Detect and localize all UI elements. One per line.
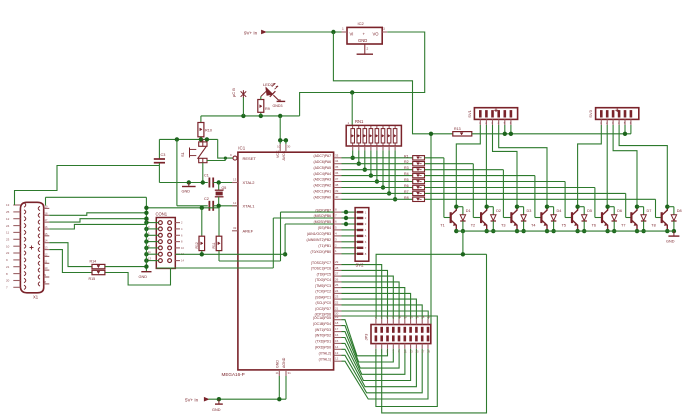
svg-text:14: 14: [335, 345, 339, 349]
svg-text:C2: C2: [204, 197, 209, 201]
svg-text:(SS)PB4: (SS)PB4: [318, 226, 331, 230]
svg-text:1: 1: [342, 27, 344, 31]
svg-text:R8: R8: [404, 196, 409, 200]
svg-text:R1: R1: [404, 154, 409, 158]
svg-text:GND: GND: [358, 38, 367, 43]
svg-text:D6: D6: [617, 209, 622, 213]
svg-text:RN1: RN1: [355, 119, 364, 124]
svg-text:(AIN1/OC0)PB3: (AIN1/OC0)PB3: [307, 232, 331, 236]
svg-text:T8: T8: [651, 224, 655, 228]
svg-text:25: 25: [335, 283, 339, 287]
svg-text:(INT1)PD3: (INT1)PD3: [315, 328, 331, 332]
svg-text:18: 18: [421, 315, 425, 319]
svg-text:(TDI)PC5: (TDI)PC5: [317, 272, 331, 276]
svg-text:29: 29: [335, 260, 339, 264]
svg-text:S1: S1: [180, 151, 185, 157]
svg-text:R11: R11: [212, 242, 216, 248]
svg-text:13: 13: [410, 350, 414, 354]
svg-text:31: 31: [288, 371, 292, 375]
svg-text:(ADC6)PA6: (ADC6)PA6: [314, 160, 332, 164]
svg-text:AGND: AGND: [282, 357, 286, 368]
svg-text:JP3: JP3: [364, 333, 369, 341]
svg-text:38: 38: [335, 183, 339, 187]
svg-text:5V+ In: 5V+ In: [185, 397, 199, 402]
svg-text:(RXD)PD0: (RXD)PD0: [315, 346, 331, 350]
svg-text:30: 30: [287, 145, 291, 149]
svg-text:T5: T5: [562, 224, 566, 228]
svg-text:(ADC2)PA2: (ADC2)PA2: [314, 184, 332, 188]
svg-text:(T1)PB1: (T1)PB1: [318, 244, 331, 248]
svg-text:23: 23: [335, 295, 339, 299]
svg-text:D3: D3: [527, 209, 532, 213]
svg-text:R2: R2: [404, 160, 409, 164]
svg-text:35: 35: [335, 165, 339, 169]
svg-text:GND: GND: [275, 360, 279, 368]
svg-text:SV2: SV2: [356, 263, 365, 268]
svg-text:40: 40: [335, 195, 339, 199]
svg-text:(TOSC1)PC6: (TOSC1)PC6: [311, 267, 331, 271]
svg-text:AREF: AREF: [243, 229, 254, 234]
svg-text:R7: R7: [404, 190, 409, 194]
svg-text:GND: GND: [139, 275, 148, 279]
svg-text:T7: T7: [621, 224, 625, 228]
svg-text:LED2: LED2: [263, 82, 274, 87]
svg-text:12: 12: [335, 357, 339, 361]
svg-text:T1: T1: [440, 224, 444, 228]
svg-text:25: 25: [6, 210, 10, 214]
svg-text:MEGA16-P: MEGA16-P: [222, 372, 245, 377]
svg-text:21: 21: [6, 265, 10, 269]
svg-text:(ADC3)PA3: (ADC3)PA3: [314, 178, 332, 182]
svg-text:11: 11: [276, 371, 279, 375]
svg-text:13: 13: [233, 178, 237, 182]
svg-text:12: 12: [6, 217, 10, 221]
svg-text:XTAL2: XTAL2: [243, 180, 256, 185]
svg-text:AVCC: AVCC: [282, 150, 286, 160]
svg-text:GND: GND: [666, 240, 675, 244]
svg-text:R5: R5: [404, 178, 409, 182]
svg-text:CON1: CON1: [156, 212, 168, 217]
svg-text:12: 12: [404, 315, 408, 319]
svg-text:GND: GND: [182, 190, 191, 194]
svg-text:IC2: IC2: [358, 21, 365, 26]
svg-text:T4: T4: [531, 224, 535, 228]
svg-text:T2: T2: [471, 224, 475, 228]
svg-text:RESET: RESET: [243, 156, 257, 161]
svg-text:XTAL1: XTAL1: [243, 204, 256, 209]
svg-text:(TCK)PC2: (TCK)PC2: [315, 290, 331, 294]
svg-text:D1: D1: [466, 209, 471, 213]
svg-text:(T0/XCK)PB0: (T0/XCK)PB0: [310, 250, 331, 254]
svg-text:39: 39: [335, 189, 339, 193]
svg-text:D4: D4: [557, 209, 562, 213]
svg-text:GND3: GND3: [273, 104, 283, 108]
svg-text:(XTAL2): (XTAL2): [319, 352, 331, 356]
svg-text:R9: R9: [265, 107, 270, 111]
svg-text:24: 24: [335, 289, 339, 293]
svg-text:32: 32: [233, 226, 237, 230]
svg-text:28: 28: [335, 266, 339, 270]
svg-text:24: 24: [6, 224, 10, 228]
svg-text:16: 16: [335, 333, 339, 337]
svg-text:(SCL)PC0: (SCL)PC0: [316, 301, 332, 305]
svg-text:(INT0)PD2: (INT0)PD2: [315, 334, 331, 338]
svg-text:9V+ In: 9V+ In: [244, 30, 258, 35]
svg-text:20: 20: [427, 315, 431, 319]
svg-text:21: 21: [335, 307, 339, 311]
svg-text:GND: GND: [212, 408, 221, 412]
svg-text:(TDO)PC4: (TDO)PC4: [315, 278, 331, 282]
svg-text:X1: X1: [33, 295, 39, 300]
svg-text:2: 2: [367, 47, 369, 51]
svg-text:VO: VO: [373, 31, 380, 36]
svg-text:D5: D5: [587, 209, 592, 213]
svg-text:D8: D8: [677, 209, 682, 213]
svg-text:27: 27: [335, 272, 339, 276]
svg-text:10: 10: [6, 244, 10, 248]
svg-text:(OC1A)PD5: (OC1A)PD5: [313, 316, 331, 320]
svg-text:(AIN0/INT2)PB2: (AIN0/INT2)PB2: [307, 238, 332, 242]
svg-text:16: 16: [415, 315, 419, 319]
svg-text:(ADC1)PA1: (ADC1)PA1: [314, 190, 332, 194]
svg-text:11: 11: [404, 350, 407, 354]
svg-text:R6: R6: [404, 184, 409, 188]
svg-text:15: 15: [415, 350, 419, 354]
svg-text:14: 14: [410, 315, 414, 319]
svg-text:(OC2)PD7: (OC2)PD7: [315, 307, 331, 311]
svg-text:R10: R10: [205, 129, 212, 133]
svg-text:36: 36: [335, 171, 339, 175]
svg-text:(OC1B)PD4: (OC1B)PD4: [313, 322, 331, 326]
svg-text:R3: R3: [404, 166, 409, 170]
svg-text:R14: R14: [90, 260, 97, 264]
svg-text:17: 17: [421, 350, 425, 354]
svg-text:(TOSC2)PC7: (TOSC2)PC7: [311, 261, 331, 265]
svg-text:T6: T6: [592, 224, 596, 228]
svg-text:R15: R15: [89, 277, 96, 281]
svg-text:R12: R12: [195, 242, 199, 248]
svg-text:Q5: Q5: [222, 186, 227, 190]
svg-text:(ADC7)PA7: (ADC7)PA7: [314, 154, 332, 158]
svg-text:(TXD)PD1: (TXD)PD1: [315, 340, 331, 344]
svg-text:11: 11: [6, 231, 9, 235]
svg-text:37: 37: [335, 177, 339, 181]
svg-text:(ADC0)PA0: (ADC0)PA0: [314, 196, 332, 200]
svg-text:19: 19: [335, 315, 339, 319]
svg-text:SV3: SV3: [588, 109, 593, 117]
svg-text:(TMS)PC3: (TMS)PC3: [315, 284, 331, 288]
svg-text:19: 19: [427, 350, 431, 354]
svg-text:12: 12: [233, 201, 237, 205]
svg-text:VCC: VCC: [276, 150, 280, 158]
svg-text:13: 13: [6, 203, 10, 207]
svg-text:10: 10: [277, 145, 281, 149]
svg-text:(XTAL1): (XTAL1): [319, 357, 331, 361]
svg-text:(SDA)PC1: (SDA)PC1: [315, 295, 331, 299]
svg-text:µC B: µC B: [231, 88, 236, 97]
svg-text:R13: R13: [454, 127, 461, 131]
svg-text:17: 17: [335, 327, 339, 331]
svg-text:10: 10: [398, 315, 402, 319]
svg-text:T3: T3: [501, 224, 505, 228]
svg-text:33: 33: [335, 153, 339, 157]
svg-text:SV1: SV1: [467, 109, 472, 117]
svg-text:C3: C3: [161, 153, 166, 157]
svg-text:(ADC4)PA4: (ADC4)PA4: [314, 172, 332, 176]
svg-text:R4: R4: [404, 172, 409, 176]
svg-text:34: 34: [335, 159, 339, 163]
svg-text:D7: D7: [647, 209, 652, 213]
svg-text:D2: D2: [496, 209, 501, 213]
svg-text:VI: VI: [350, 31, 354, 36]
svg-text:3: 3: [383, 27, 385, 31]
svg-text:18: 18: [335, 321, 339, 325]
svg-text:15: 15: [335, 339, 339, 343]
svg-text:22: 22: [6, 251, 10, 255]
svg-text:IC1: IC1: [238, 146, 245, 151]
svg-text:22: 22: [335, 300, 339, 304]
svg-text:26: 26: [335, 277, 339, 281]
svg-text:(ADC5)PA5: (ADC5)PA5: [314, 166, 332, 170]
svg-text:C1: C1: [204, 174, 209, 178]
svg-text:20: 20: [6, 279, 10, 283]
svg-text:23: 23: [6, 238, 10, 242]
svg-text:13: 13: [335, 351, 339, 355]
